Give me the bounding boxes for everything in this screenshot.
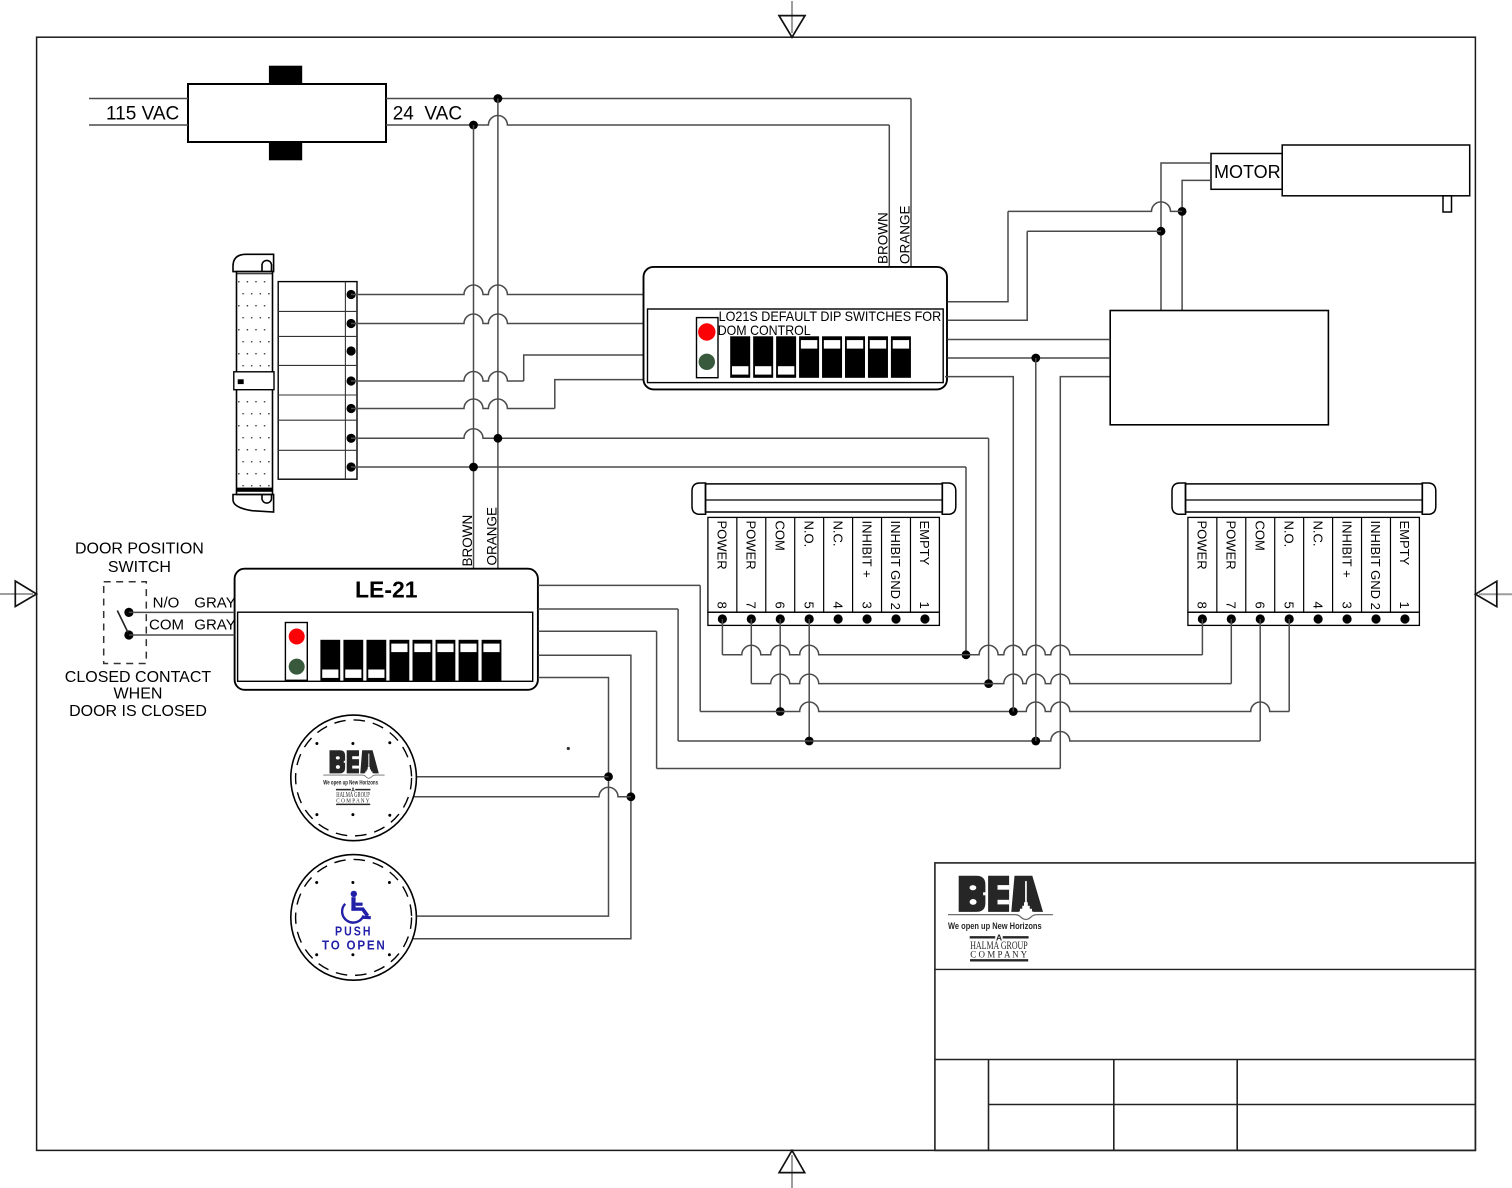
dip switch 3 — [776, 336, 796, 378]
wire power bus pin7-pin7 — [751, 674, 1231, 684]
wire LE-21 stub5 to push button — [416, 678, 608, 917]
right pin 6 — [1256, 614, 1265, 623]
sensor rail device — [233, 254, 274, 512]
dip switch 7 — [868, 336, 888, 378]
wire LO21S out1 to motor — [948, 202, 1183, 302]
svg-text:ORANGE: ORANGE — [485, 507, 500, 566]
svg-text:POWER: POWER — [744, 521, 759, 570]
wire LE-21 stub4 to push button — [413, 655, 631, 939]
switch lever — [117, 611, 128, 633]
terminal block contact 7 — [347, 462, 356, 471]
terminal strip left: contact row — [708, 612, 940, 625]
svg-text:N/O: N/O — [153, 595, 180, 612]
dip switch 2 — [343, 640, 363, 681]
wire orange vertical into LO21S top — [910, 99, 912, 267]
svg-text:GRAY: GRAY — [194, 595, 235, 612]
svg-text:6: 6 — [1252, 602, 1267, 609]
dip switch 4 — [389, 640, 409, 681]
door position switch (dashed box) — [104, 582, 147, 664]
wire power bus pin8-pin8 — [722, 645, 1202, 655]
terminal block contact 3 — [347, 346, 356, 355]
left pin 2 — [891, 614, 900, 623]
svg-text:POWER: POWER — [715, 521, 730, 570]
right pin 1 — [1400, 614, 1409, 623]
svg-text:INHIBIT +: INHIBIT + — [1339, 521, 1354, 578]
wire motor 1 — [1161, 163, 1211, 311]
right pin 5 — [1285, 614, 1294, 623]
svg-text:SWITCH: SWITCH — [108, 559, 171, 576]
left pin 8 — [718, 614, 727, 623]
svg-text:5: 5 — [1281, 602, 1296, 609]
svg-text:N.O.: N.O. — [1281, 521, 1296, 548]
terminal strip left: mounting rail — [692, 483, 956, 514]
svg-text:3: 3 — [859, 602, 874, 609]
svg-text:4: 4 — [830, 602, 845, 609]
wire left pin5 drop — [808, 619, 810, 741]
dip switch 2 — [753, 336, 773, 378]
wire block pin5 to LO21S (step) — [351, 399, 555, 409]
svg-text:N.C.: N.C. — [830, 521, 845, 547]
left centering marker — [0, 581, 37, 607]
stray mark — [567, 747, 570, 750]
dip switch 6 — [845, 336, 865, 378]
wire LE-21 stub2 — [538, 608, 678, 610]
svg-text:N.C.: N.C. — [1310, 521, 1325, 547]
wire 115VAC upper — [89, 98, 188, 100]
svg-text:MOTOR: MOTOR — [1214, 162, 1281, 182]
dip switch 5 — [413, 640, 433, 681]
dip switch 3 — [366, 640, 386, 681]
wire LE-21 to module box (bottom run) — [657, 377, 1111, 769]
svg-text:COM: COM — [1252, 521, 1267, 551]
wire drop to N.O. bus — [1035, 358, 1037, 741]
transformer T1 115VAC/24VAC — [188, 66, 386, 161]
svg-text:7: 7 — [744, 602, 759, 609]
wire LO21S out4 — [948, 357, 1111, 359]
svg-text:BROWN: BROWN — [460, 515, 475, 567]
svg-text:POWER: POWER — [1224, 521, 1239, 570]
svg-text:INHIBIT GND 2: INHIBIT GND 2 — [888, 521, 903, 610]
svg-text:INHIBIT GND 2: INHIBIT GND 2 — [1368, 521, 1383, 610]
terminal strip right: mounting rail — [1172, 483, 1436, 514]
switch contact N/O — [124, 608, 133, 617]
dip switch 1 — [730, 336, 750, 378]
wire left pin8 drop — [721, 619, 723, 655]
svg-text:ORANGE: ORANGE — [898, 205, 913, 264]
wire LO21S out3 — [948, 339, 1111, 341]
terminal block contact 2 — [347, 319, 356, 328]
wire right pin7 drop — [1230, 619, 1232, 684]
wire LE-21 stub3 — [538, 630, 657, 632]
bottom centering marker — [779, 1150, 805, 1188]
left pin 1 — [920, 614, 929, 623]
terminal block contact 6 — [347, 434, 356, 443]
left pin 6 — [776, 614, 785, 623]
dip switch 1 — [320, 640, 340, 681]
LE-21 control module — [235, 569, 538, 690]
svg-text:7: 7 — [1224, 602, 1239, 609]
svg-text:BROWN: BROWN — [876, 212, 891, 264]
LO21S control module — [644, 267, 948, 390]
svg-text:24 VAC: 24 VAC — [393, 104, 462, 125]
svg-text:POWER: POWER — [1195, 521, 1210, 570]
svg-text:6: 6 — [772, 602, 787, 609]
svg-text:1: 1 — [1397, 602, 1412, 609]
wire block pin7 (brown feed) — [351, 466, 966, 468]
left pin 3 — [862, 614, 871, 623]
wire BEA button out2 — [414, 787, 631, 797]
wire N.O. bus (left pin5 to right pin6) — [678, 609, 1260, 745]
terminal strip right: contact row — [1188, 612, 1420, 625]
svg-text:8: 8 — [1195, 602, 1210, 609]
svg-text:EMPTY: EMPTY — [917, 521, 932, 566]
wire brown drop to strip pin8 — [965, 467, 967, 655]
right pin 8 — [1198, 614, 1207, 623]
svg-text:COM: COM — [772, 521, 787, 551]
right pin 7 — [1227, 614, 1236, 623]
svg-text:5: 5 — [801, 602, 816, 609]
dip switch 6 — [436, 640, 456, 681]
wire right pin8 drop — [1201, 619, 1203, 655]
wire LO21S out5 — [945, 377, 1013, 712]
module interface box — [1110, 311, 1328, 425]
terminal strip right: label box — [1188, 517, 1420, 612]
svg-text:1: 1 — [917, 602, 932, 609]
right pin 3 — [1342, 614, 1351, 623]
terminal strip left: label box — [708, 517, 940, 612]
left pin 4 — [834, 614, 843, 623]
wire N/O to LE-21 — [129, 611, 235, 613]
wire brown vertical into LO21S top — [888, 125, 890, 267]
BEA round button — [291, 715, 417, 841]
svg-text:TO OPEN: TO OPEN — [322, 938, 387, 953]
wire 115VAC lower — [89, 124, 188, 126]
dip switch 8 — [482, 640, 502, 681]
LO21S green LED — [699, 354, 715, 370]
wire 24VAC bottom (brown) to LO21S — [386, 116, 889, 126]
left pin 5 — [805, 614, 814, 623]
title block — [935, 863, 1476, 1151]
wire brown vertical to LE-21 — [473, 125, 475, 569]
LE-21 red LED — [289, 629, 305, 645]
wire block pin4 to LO21S (step) — [351, 372, 524, 382]
wire orange drop to strip pin7 — [988, 438, 990, 683]
terminal block (7 cells) — [278, 282, 357, 480]
top centering marker — [779, 1, 805, 37]
dip switch 4 — [799, 336, 819, 378]
wire left pin7 drop — [750, 619, 752, 684]
svg-text:DOOR POSITION: DOOR POSITION — [75, 540, 204, 557]
wire block pin2 to LO21S — [351, 314, 644, 324]
MOTOR label box — [1211, 154, 1282, 190]
terminal block contact 1 — [347, 290, 356, 299]
svg-text:3: 3 — [1339, 602, 1354, 609]
terminal block contact 4 — [347, 376, 356, 385]
svg-text:PUSH: PUSH — [335, 924, 373, 939]
left pin 7 — [747, 614, 756, 623]
svg-text:EMPTY: EMPTY — [1397, 521, 1412, 566]
wire LE-21 stub1 — [538, 584, 700, 586]
terminal block contact 5 — [347, 404, 356, 413]
wire block pin1 to LO21S — [351, 285, 644, 295]
motor body — [1282, 145, 1470, 196]
wire 24VAC top (orange) to LO21S — [386, 98, 911, 100]
svg-text:INHIBIT +: INHIBIT + — [859, 521, 874, 578]
wire LO21S out2 to motor — [948, 231, 1162, 320]
svg-text:4: 4 — [1310, 602, 1325, 609]
BEA logo (title block) — [948, 876, 1053, 961]
LO21S red LED — [698, 323, 715, 340]
dip switch 7 — [459, 640, 479, 681]
svg-text:115 VAC: 115 VAC — [106, 104, 179, 125]
svg-text:DOOR IS CLOSED: DOOR IS CLOSED — [69, 703, 207, 720]
wire COM bus (left pin6 to right pin5) — [700, 585, 1289, 715]
right pin 2 — [1371, 614, 1380, 623]
svg-text:N.O.: N.O. — [801, 521, 816, 548]
svg-text:GRAY: GRAY — [194, 617, 235, 634]
wire COM to LE-21 — [129, 634, 235, 636]
svg-text:8: 8 — [715, 602, 730, 609]
right pin 4 — [1314, 614, 1323, 623]
wire orange vertical to LE-21 — [497, 99, 499, 570]
wire block pin6 (orange feed) — [351, 429, 989, 439]
svg-text:WHEN: WHEN — [114, 686, 163, 703]
right centering marker — [1475, 581, 1512, 607]
LE-21 green LED — [289, 659, 305, 675]
switch contact COM — [124, 630, 133, 639]
svg-text:COM: COM — [149, 617, 184, 634]
wire BEA button out1 — [416, 776, 608, 778]
svg-text:DOM CONTROL: DOM CONTROL — [718, 323, 811, 338]
svg-text:CLOSED CONTACT: CLOSED CONTACT — [65, 669, 212, 686]
PUSH TO OPEN button — [291, 855, 417, 981]
svg-text:LE-21: LE-21 — [355, 577, 418, 603]
wire motor 2 — [1182, 180, 1211, 310]
wire left pin6 drop — [779, 619, 781, 712]
dip switch 5 — [822, 336, 842, 378]
dip switch 8 — [891, 336, 911, 378]
